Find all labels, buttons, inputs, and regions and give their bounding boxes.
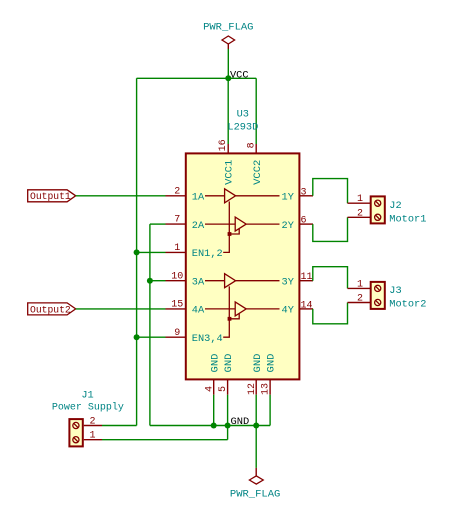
svg-text:1: 1 [357, 194, 363, 205]
svg-text:3A: 3A [192, 277, 205, 289]
svg-text:15: 15 [171, 300, 183, 311]
svg-text:1A: 1A [192, 192, 205, 204]
svg-text:GND: GND [266, 354, 278, 373]
svg-text:GND: GND [223, 354, 235, 373]
svg-text:9: 9 [174, 328, 180, 339]
svg-text:2: 2 [357, 294, 363, 305]
svg-text:12: 12 [247, 383, 258, 395]
svg-text:GND: GND [252, 354, 264, 373]
svg-text:4Y: 4Y [282, 305, 294, 317]
svg-text:16: 16 [218, 139, 229, 151]
svg-text:14: 14 [301, 300, 313, 311]
svg-text:VCC2: VCC2 [252, 160, 264, 185]
svg-text:7: 7 [174, 215, 180, 226]
svg-text:2Y: 2Y [282, 220, 294, 232]
svg-text:GND: GND [231, 416, 250, 428]
svg-text:VCC1: VCC1 [224, 160, 236, 185]
svg-text:5: 5 [218, 386, 229, 392]
svg-text:2A: 2A [192, 220, 205, 232]
svg-text:L293D: L293D [227, 122, 258, 134]
svg-text:J1: J1 [81, 389, 93, 401]
svg-text:1: 1 [357, 279, 363, 290]
svg-text:4: 4 [204, 386, 215, 392]
svg-text:11: 11 [301, 272, 313, 283]
svg-text:10: 10 [171, 271, 183, 282]
svg-text:4A: 4A [192, 305, 205, 317]
svg-text:Power Supply: Power Supply [52, 402, 124, 414]
svg-text:VCC: VCC [230, 69, 249, 81]
svg-text:2: 2 [357, 208, 363, 219]
svg-text:U3: U3 [237, 109, 249, 121]
svg-text:Output2: Output2 [30, 304, 71, 315]
svg-text:1: 1 [89, 431, 95, 442]
svg-text:EN3,4: EN3,4 [192, 333, 223, 345]
svg-text:1Y: 1Y [282, 192, 294, 204]
svg-text:EN1,2: EN1,2 [192, 248, 223, 260]
svg-text:2: 2 [174, 186, 180, 197]
svg-text:PWR_FLAG: PWR_FLAG [230, 488, 280, 500]
svg-text:Output1: Output1 [30, 191, 71, 202]
svg-text:13: 13 [261, 383, 272, 395]
svg-text:3: 3 [301, 187, 307, 198]
svg-text:J2: J2 [389, 200, 401, 212]
svg-text:8: 8 [247, 142, 258, 148]
svg-text:Motor1: Motor1 [389, 213, 426, 225]
svg-text:1: 1 [174, 243, 180, 254]
svg-text:2: 2 [89, 416, 95, 427]
svg-text:6: 6 [301, 216, 307, 227]
svg-text:J3: J3 [389, 285, 401, 297]
svg-text:PWR_FLAG: PWR_FLAG [203, 22, 253, 34]
svg-text:Motor2: Motor2 [389, 299, 426, 311]
svg-text:3Y: 3Y [282, 277, 294, 289]
svg-text:GND: GND [209, 354, 221, 373]
